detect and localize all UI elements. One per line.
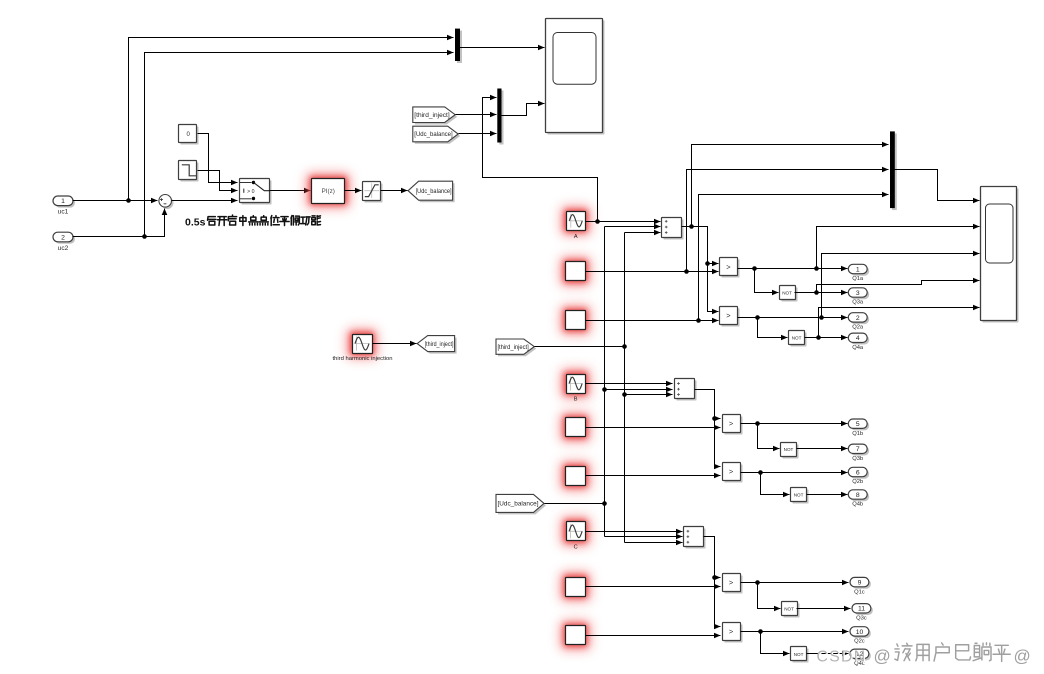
outport 10 Q2c bbox=[852, 629, 871, 638]
carrier A2 block with red glow bbox=[560, 305, 592, 336]
wire sum to switch input 3 bbox=[172, 200, 238, 202]
svg-text:uc2: uc2 bbox=[58, 245, 69, 252]
wire NOT B1 to outport Q3b bbox=[797, 448, 848, 450]
svg-text:>: > bbox=[726, 311, 731, 320]
step block bbox=[181, 163, 199, 182]
wire NOT C2 to outport Q4c bbox=[807, 653, 849, 655]
svg-text:9: 9 bbox=[858, 580, 862, 587]
wire uc1 to sum bbox=[73, 200, 158, 202]
svg-text:NOT: NOT bbox=[794, 493, 804, 498]
mux3 bar bbox=[892, 133, 897, 210]
logical NOT B2 bbox=[793, 490, 809, 504]
node third_inject tee bbox=[622, 344, 627, 349]
goto tag third_inject bbox=[419, 338, 456, 354]
wire third_inject to add C input 3 bbox=[625, 542, 683, 544]
svg-text:third harmonic injection: third harmonic injection bbox=[333, 356, 393, 362]
svg-text:Q2c: Q2c bbox=[854, 639, 865, 645]
carrier B2 block with red glow bbox=[560, 461, 592, 492]
svg-text:uc1: uc1 bbox=[58, 209, 69, 216]
wire Q4a to scope3 input 5 bbox=[819, 308, 980, 338]
svg-text:[third_inject]: [third_inject] bbox=[414, 113, 450, 119]
wire ref C to gt C1 input 1 bbox=[715, 577, 721, 579]
svg-text:B: B bbox=[574, 397, 578, 403]
wire to NOT A1 bbox=[755, 269, 779, 293]
svg-text:Q4a: Q4a bbox=[852, 345, 864, 351]
svg-text:[third_inject]: [third_inject] bbox=[425, 342, 454, 348]
carrier C2 block with red glow bbox=[560, 620, 592, 651]
node carrier A2 branch bbox=[696, 318, 701, 323]
svg-text:CSDN: CSDN bbox=[817, 649, 867, 666]
wire sine A to add A bbox=[586, 221, 661, 223]
carrier B1 block with red glow bbox=[560, 412, 592, 443]
svg-text:8: 8 bbox=[856, 492, 860, 499]
svg-text:Q3b: Q3b bbox=[852, 456, 863, 462]
svg-text:[Udc_balance]: [Udc_balance] bbox=[414, 132, 453, 138]
svg-text:4: 4 bbox=[856, 335, 860, 342]
svg-text:NOT: NOT bbox=[784, 606, 794, 611]
outport 6 Q2b bbox=[850, 469, 869, 478]
svg-text:PI(z): PI(z) bbox=[321, 188, 335, 195]
svg-text:C: C bbox=[574, 544, 578, 550]
relational operator gt B1 bbox=[725, 417, 743, 435]
node Q1b branch bbox=[755, 421, 760, 426]
svg-text:@: @ bbox=[874, 647, 891, 666]
node ref A to comparator 1 bbox=[705, 261, 710, 266]
from tag third_inject phase bbox=[498, 341, 536, 356]
svg-text:Q2a: Q2a bbox=[852, 325, 864, 331]
svg-text:10: 10 bbox=[856, 629, 864, 636]
wire Udc_balance to add B input 2 bbox=[605, 389, 673, 391]
node uc2 branch bbox=[142, 234, 147, 239]
svg-text:[Udc_balance]: [Udc_balance] bbox=[416, 189, 452, 195]
relational operator gt A1 bbox=[722, 260, 740, 278]
node ref C to comparator bbox=[712, 575, 717, 580]
add block C bbox=[686, 529, 706, 549]
wire from third_inject to vertical net bbox=[535, 346, 625, 348]
svg-text:2: 2 bbox=[856, 315, 860, 322]
svg-text:0.5s: 0.5s bbox=[185, 217, 206, 229]
node uc1 branch bbox=[126, 198, 131, 203]
svg-text:NOT: NOT bbox=[792, 336, 802, 341]
svg-text:3: 3 bbox=[856, 290, 860, 297]
wire carrier A1 to mux3 input 2 bbox=[687, 170, 889, 272]
logical NOT A2 bbox=[791, 333, 807, 347]
wire add A output bbox=[682, 227, 719, 312]
wire to NOT A2 bbox=[758, 318, 788, 338]
node Udc_balance tee bbox=[602, 501, 607, 506]
wire add B output bbox=[695, 390, 721, 467]
svg-text:Q1c: Q1c bbox=[854, 589, 865, 595]
constant 0 block bbox=[181, 127, 199, 145]
inport 1 uc1 bbox=[55, 198, 75, 208]
svg-text:Q3a: Q3a bbox=[852, 300, 864, 306]
svg-text:NOT: NOT bbox=[794, 652, 804, 657]
wire gt A2 to outport Q2a bbox=[738, 317, 848, 319]
wire from Udc_balance to mux2 input 3 bbox=[459, 133, 497, 135]
node ref B to comparator bbox=[712, 416, 717, 421]
wire mux3 to scope3 input 1 bbox=[895, 170, 980, 201]
svg-text:1: 1 bbox=[856, 266, 860, 273]
wire carrier A2 to mux3 input 3 bbox=[699, 195, 889, 321]
wire uc2 to sum lower input bbox=[73, 209, 165, 237]
svg-text:Q3c: Q3c bbox=[856, 616, 867, 622]
outport 9 Q1c bbox=[852, 579, 871, 588]
wire ref B to gt B1 input 1 bbox=[715, 418, 721, 420]
inport 2 uc2 bbox=[55, 234, 75, 244]
node Q1a branch to scope bbox=[814, 266, 819, 271]
outport 2 Q2a bbox=[850, 315, 869, 324]
vertical net Udc_balance bbox=[604, 227, 606, 537]
svg-text:[third_inject]: [third_inject] bbox=[497, 345, 529, 351]
node Q1c branch bbox=[755, 580, 760, 585]
svg-text:Q1a: Q1a bbox=[852, 276, 864, 282]
wire sine C to add C bbox=[586, 531, 683, 533]
wire NOT C1 to outport Q3c bbox=[797, 608, 851, 610]
wire ref A to mux3 input 1 bbox=[692, 145, 889, 227]
scope3 block bbox=[983, 189, 1019, 323]
outport 7 Q3b bbox=[850, 446, 869, 455]
node third_inject tee B bbox=[622, 392, 627, 397]
wire to NOT C2 bbox=[761, 632, 790, 654]
sine wave source A with red glow bbox=[560, 205, 591, 236]
wire gt B2 to outport Q2b bbox=[741, 472, 848, 474]
svg-text:2: 2 bbox=[61, 234, 65, 241]
wire Udc_balance to add A input 2 bbox=[605, 226, 661, 228]
svg-text:>: > bbox=[729, 419, 734, 428]
wire carrier A1 to gt A1 input 2 bbox=[586, 271, 719, 273]
node Q2a branch to NOT bbox=[755, 315, 760, 320]
wire step to switch control input bbox=[198, 171, 238, 191]
saturation block bbox=[365, 184, 383, 203]
svg-text:7: 7 bbox=[856, 446, 860, 453]
sine wave source C with red glow bbox=[560, 516, 591, 547]
node add A output branch bbox=[689, 224, 694, 229]
wire third harmonic to goto bbox=[373, 343, 417, 345]
svg-text:> 0: > 0 bbox=[247, 189, 254, 195]
svg-text:Q2b: Q2b bbox=[852, 479, 863, 485]
sine wave source B with red glow bbox=[560, 368, 591, 399]
relational operator gt A2 bbox=[722, 309, 740, 327]
wire third_inject to add A input 3 bbox=[625, 232, 661, 234]
wire constant to switch input 1 bbox=[198, 134, 238, 183]
node Q2b branch bbox=[758, 470, 763, 475]
wire from third_inject to mux2 input 2 bbox=[456, 114, 497, 116]
wire NOT B2 to outport Q4b bbox=[807, 494, 848, 496]
node Udc_balance tee B bbox=[602, 387, 607, 392]
sum block bbox=[161, 197, 174, 210]
wire PI to saturation bbox=[345, 190, 362, 192]
node sine A junction bbox=[595, 219, 600, 224]
goto tag Udc_balance bbox=[410, 183, 455, 202]
wire to NOT C1 bbox=[758, 583, 781, 609]
wire to NOT B1 bbox=[758, 424, 780, 449]
mux1 bar bbox=[457, 31, 462, 63]
outport 12 Q4c bbox=[852, 651, 871, 660]
node Q4a branch bbox=[816, 335, 821, 340]
wire uc1 to mux1 input 1 bbox=[129, 38, 454, 201]
svg-text:1: 1 bbox=[61, 198, 65, 205]
wire gt B1 to outport Q1b bbox=[741, 423, 848, 425]
outport 5 Q1b bbox=[850, 421, 869, 430]
wire NOT A2 to outport Q4a bbox=[805, 337, 848, 339]
wire sine B to add B bbox=[586, 383, 673, 385]
svg-text:@: @ bbox=[1014, 647, 1031, 666]
svg-text:A: A bbox=[574, 234, 578, 240]
svg-text:Q1b: Q1b bbox=[852, 431, 863, 437]
switch block bbox=[242, 181, 272, 205]
wire to NOT B2 bbox=[761, 473, 790, 495]
from tag Udc_balance phase bbox=[498, 496, 546, 514]
wire carrier C1 to gt C1 input 2 bbox=[586, 586, 721, 588]
from tag third_inject upper bbox=[415, 109, 457, 125]
relational operator gt B2 bbox=[725, 465, 743, 483]
wire Q2a to scope3 input 3 bbox=[822, 254, 980, 318]
outport 3 Q3a bbox=[850, 290, 869, 299]
node Q3a branch bbox=[814, 290, 819, 295]
vertical net third_inject bbox=[624, 233, 626, 543]
wire switch to PI bbox=[270, 190, 311, 192]
scope1 block bbox=[548, 21, 605, 135]
wire Q1a to scope3 input 2 bbox=[817, 227, 980, 269]
carrier A1 block with red glow bbox=[560, 256, 592, 287]
svg-text:5: 5 bbox=[856, 421, 860, 428]
wire sine A tap to mux2 input 1 bbox=[483, 98, 598, 222]
wire uc2 to mux1 input 2 bbox=[145, 53, 454, 237]
carrier C1 block with red glow bbox=[560, 571, 592, 602]
wire third_inject to add B input 3 bbox=[625, 394, 673, 396]
svg-text:>: > bbox=[726, 263, 731, 272]
outport 8 Q4b bbox=[850, 492, 869, 501]
wire mux1 to scope1 input 1 bbox=[460, 47, 545, 49]
wire ref A to gt A1 input 1 bbox=[708, 263, 719, 265]
outport 1 Q1a bbox=[850, 266, 869, 275]
node Q2a branch to scope bbox=[819, 315, 824, 320]
wire gt A1 to outport Q1a bbox=[738, 268, 848, 270]
wire gt C1 to outport Q1c bbox=[741, 582, 849, 584]
outport 4 Q4a bbox=[850, 335, 869, 344]
wire carrier A2 to gt A2 input 2 bbox=[586, 320, 719, 322]
svg-text:[Udc_balance]: [Udc_balance] bbox=[498, 502, 539, 508]
logical NOT B1 bbox=[783, 445, 799, 459]
svg-text:>: > bbox=[729, 467, 734, 476]
wire NOT A1 to outport Q3a bbox=[795, 292, 848, 294]
node Q2c branch bbox=[758, 629, 763, 634]
svg-text:NOT: NOT bbox=[782, 291, 792, 296]
wire carrier C2 to gt C2 input 2 bbox=[586, 635, 721, 637]
svg-text:6: 6 bbox=[856, 469, 860, 476]
logical NOT C1 bbox=[784, 604, 800, 618]
node Q1a branch to NOT bbox=[752, 266, 757, 271]
wire carrier B2 to gt B2 input 2 bbox=[586, 475, 721, 477]
wire mux2 to scope1 input 2 bbox=[502, 104, 545, 116]
wire Udc_balance to add C input 2 bbox=[605, 536, 683, 538]
mux2 bar bbox=[499, 91, 503, 145]
wire add C output bbox=[704, 537, 721, 627]
relational operator gt C2 bbox=[725, 625, 743, 643]
logical NOT C2 bbox=[793, 649, 809, 663]
PI(z) controller block with red glow bbox=[306, 172, 351, 209]
wire carrier B1 to gt B1 input 2 bbox=[586, 427, 721, 429]
sine wave third harmonic injection with red glow bbox=[346, 328, 378, 359]
logical NOT A1 bbox=[782, 288, 798, 302]
svg-text:11: 11 bbox=[858, 606, 865, 613]
svg-text:Q4b: Q4b bbox=[852, 502, 863, 508]
wire from Udc_balance to vertical net bbox=[545, 503, 605, 505]
svg-text:>: > bbox=[729, 578, 734, 587]
relational operator gt C1 bbox=[725, 576, 743, 594]
wire gt C2 to outport Q2c bbox=[741, 631, 849, 633]
add block A bbox=[664, 220, 684, 240]
outport 11 Q3c bbox=[854, 606, 873, 615]
node carrier A1 branch bbox=[684, 269, 689, 274]
from tag Udc_balance upper bbox=[415, 128, 460, 144]
wire saturation to goto bbox=[381, 190, 408, 192]
add block B bbox=[677, 381, 697, 401]
svg-text:NOT: NOT bbox=[784, 447, 794, 452]
svg-text:>: > bbox=[729, 627, 734, 636]
wire Q3a to scope3 input 4 bbox=[817, 281, 980, 293]
